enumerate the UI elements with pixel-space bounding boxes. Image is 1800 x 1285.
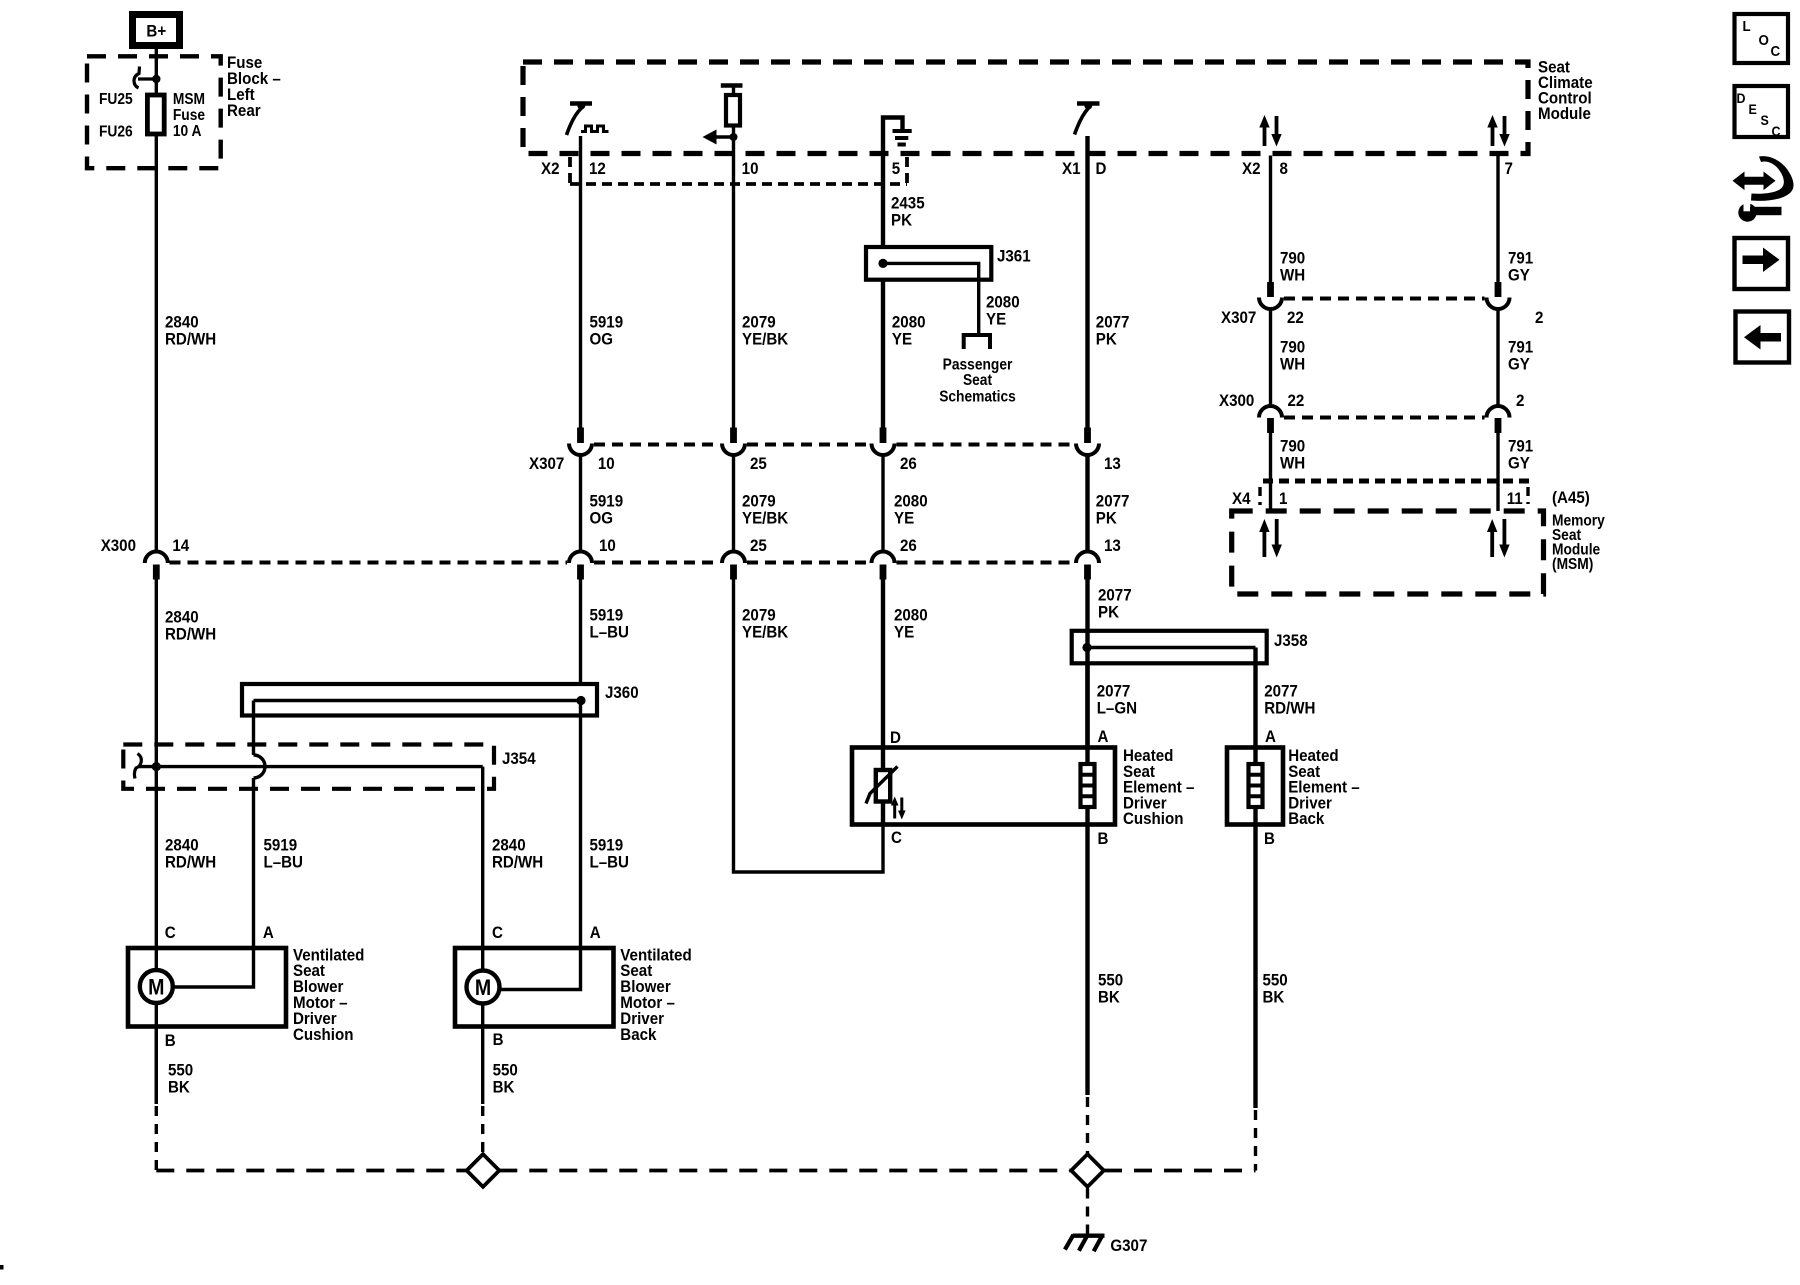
- svg-text:26: 26: [900, 454, 917, 473]
- arrow: [1487, 519, 1497, 532]
- svg-text:J358: J358: [1274, 631, 1308, 650]
- svg-text:Passenger: Passenger: [943, 357, 1013, 374]
- svg-text:B: B: [493, 1030, 504, 1049]
- svg-text:J354: J354: [502, 749, 536, 768]
- X2 connector dashed band: [570, 157, 907, 184]
- box: [866, 247, 991, 280]
- box: [1736, 312, 1790, 363]
- svg-text:5: 5: [892, 159, 900, 178]
- wire: [569, 444, 592, 456]
- wire: [872, 444, 895, 456]
- wire: [481, 1027, 484, 1105]
- bidirectional arrows at pin 8: [1263, 126, 1267, 147]
- svg-text:RD/WH: RD/WH: [492, 853, 543, 872]
- svg-text:7: 7: [1504, 159, 1512, 178]
- svg-text:FU26: FU26: [99, 124, 133, 141]
- box: [730, 565, 737, 580]
- wire: [1249, 775, 1263, 797]
- svg-text:B: B: [165, 1031, 176, 1050]
- wire: [1275, 116, 1279, 136]
- box: [1735, 14, 1789, 63]
- svg-text:25: 25: [750, 536, 767, 555]
- svg-text:A: A: [590, 923, 601, 942]
- svg-text:RD/WH: RD/WH: [165, 853, 216, 872]
- splice J358: [1072, 631, 1267, 664]
- motor M circle cushion: [140, 970, 173, 1003]
- wires below motors: [155, 1027, 158, 1105]
- wire: [732, 86, 735, 96]
- box: [577, 565, 584, 580]
- dashed drop to ground: [1086, 1189, 1089, 1235]
- svg-text:Seat: Seat: [963, 373, 992, 390]
- X300 pin 25 terminal: [722, 552, 745, 564]
- thermistor arrows: [893, 804, 896, 819]
- sidebar DESC icon: [1735, 86, 1789, 139]
- wire 5919 L-BU branch from J360 with crossover hop at J354: [252, 701, 255, 756]
- svg-text:J361: J361: [997, 247, 1031, 266]
- wire: [881, 456, 884, 552]
- svg-text:RD/WH: RD/WH: [165, 625, 216, 644]
- svg-text:L–GN: L–GN: [1097, 699, 1137, 718]
- svg-text:B: B: [1097, 829, 1108, 848]
- svg-text:PK: PK: [1098, 603, 1119, 622]
- svg-text:C: C: [891, 828, 902, 847]
- connector X307 right: pins 22 / 2: [1221, 282, 1543, 327]
- svg-text:Fuse: Fuse: [173, 107, 205, 124]
- sidebar forward arrow icon: [1735, 238, 1789, 289]
- svg-text:GY: GY: [1508, 454, 1530, 473]
- svg-text:J360: J360: [605, 683, 639, 702]
- svg-text:X2: X2: [541, 159, 560, 178]
- sidebar back arrow icon: [1736, 312, 1790, 363]
- svg-text:B+: B+: [146, 22, 166, 41]
- svg-text:X300: X300: [101, 536, 136, 555]
- page corner mark: [0, 1265, 4, 1270]
- arrow: [1272, 545, 1282, 558]
- switch inside SCCM (pin D): [1077, 101, 1100, 106]
- svg-text:YE: YE: [894, 623, 914, 642]
- wire: [732, 456, 735, 552]
- wire: [1075, 108, 1089, 135]
- wire: [481, 1106, 484, 1155]
- wire: [1253, 807, 1257, 825]
- svg-text:X300: X300: [1219, 391, 1254, 410]
- wire: [252, 778, 255, 948]
- ground symbol inside SCCM (pin 5): [883, 118, 903, 156]
- svg-text:10: 10: [598, 454, 615, 473]
- svg-text:12: 12: [589, 159, 606, 178]
- svg-text:B: B: [1264, 829, 1275, 848]
- box: [1267, 418, 1274, 433]
- svg-text:8: 8: [1280, 159, 1288, 178]
- svg-text:WH: WH: [1280, 266, 1305, 285]
- wire: [1253, 748, 1257, 765]
- svg-text:L–BU: L–BU: [263, 853, 302, 872]
- X300 row dashed connector line: [170, 561, 1075, 565]
- splice J354 dashed box: [123, 745, 494, 789]
- svg-text:Rear: Rear: [227, 101, 261, 120]
- wire: [1284, 297, 1485, 301]
- box: [880, 565, 887, 580]
- box: [1744, 201, 1751, 212]
- svg-text:10 A: 10 A: [173, 123, 202, 140]
- wire: [893, 131, 912, 145]
- wire stub pin 12: [579, 136, 582, 428]
- wire: [1076, 444, 1099, 456]
- wire: [1085, 748, 1089, 765]
- wire 2080 YE main from SCCM pin 5: [881, 155, 885, 428]
- arrow: [1271, 134, 1281, 147]
- svg-text:L–BU: L–BU: [589, 853, 628, 872]
- wire: [866, 767, 898, 804]
- junction: [730, 133, 738, 141]
- wire: [710, 135, 734, 138]
- wire: [1086, 1097, 1089, 1155]
- connector row X307 center: pins 10 25 26 13: [529, 428, 1121, 474]
- junction: [1738, 203, 1756, 221]
- svg-text:D: D: [890, 728, 901, 747]
- svg-text:25: 25: [750, 454, 767, 473]
- bidirectional arrows at MSM pin 11: [1490, 530, 1494, 557]
- wire: [155, 948, 158, 1027]
- thermistor symbol: [876, 770, 890, 802]
- wire pin D: [1085, 136, 1089, 428]
- connector X4 row: pins 1 / 11: [1263, 479, 1530, 484]
- wire: [1269, 433, 1272, 511]
- heated seat element driver back box: [1227, 748, 1283, 825]
- box: [1267, 282, 1274, 297]
- wire 790 WH from SCCM pin 8: [1269, 156, 1272, 283]
- wire: [1503, 519, 1507, 546]
- wire: [1085, 807, 1089, 825]
- wire: [1503, 116, 1507, 136]
- resistor with arrow inside SCCM (pin 10): [721, 83, 743, 88]
- svg-text:L–BU: L–BU: [589, 623, 628, 642]
- wire: [1259, 298, 1282, 310]
- wire: [254, 699, 582, 702]
- wire: [481, 948, 484, 1027]
- wire: [254, 755, 266, 778]
- svg-text:C: C: [165, 923, 176, 942]
- svg-text:BK: BK: [1262, 988, 1284, 1007]
- switch with resistive element inside SCCM (pin 12): [570, 101, 592, 106]
- wire 2079 YE/BK down with corner to heated element pin C: [734, 579, 884, 872]
- Memory Seat Module dashed box: [1232, 511, 1544, 594]
- wire: [881, 802, 885, 825]
- svg-text:Module: Module: [1538, 104, 1591, 123]
- svg-text:GY: GY: [1508, 355, 1530, 374]
- wire: [883, 263, 979, 281]
- arrow: [703, 130, 717, 145]
- X307 pin 10 terminal: [577, 428, 584, 444]
- arrow: [1499, 134, 1509, 147]
- svg-text:13: 13: [1104, 536, 1121, 555]
- svg-text:YE: YE: [986, 310, 1006, 329]
- svg-text:G307: G307: [1110, 1236, 1147, 1255]
- wire: [581, 126, 609, 132]
- svg-text:22: 22: [1287, 308, 1304, 327]
- box: [153, 565, 160, 580]
- arrow: [1259, 519, 1269, 532]
- wire: [732, 126, 735, 138]
- wire: [1254, 1110, 1257, 1171]
- svg-text:X307: X307: [529, 454, 564, 473]
- connector X300 right: pins 22 / 2: [1219, 391, 1524, 433]
- wire: [1496, 309, 1499, 406]
- svg-text:22: 22: [1288, 391, 1305, 410]
- wire: [173, 948, 254, 987]
- svg-text:BK: BK: [168, 1078, 190, 1097]
- sidebar LOC icon: [1735, 14, 1789, 63]
- connector row X300 center: pins 14 10 25 26 13: [145, 536, 1121, 579]
- svg-text:1: 1: [1279, 489, 1287, 508]
- splice diamond right: [1071, 1154, 1104, 1187]
- heating element symbol cushion: [1081, 764, 1095, 807]
- wire: [1275, 519, 1279, 546]
- svg-text:M: M: [148, 975, 164, 999]
- junction: [577, 102, 585, 110]
- wire 5919 L-BU through J360 to motor back pin A: [579, 701, 582, 949]
- svg-text:10: 10: [742, 159, 759, 178]
- svg-text:A: A: [1097, 727, 1108, 746]
- svg-text:X1: X1: [1062, 159, 1081, 178]
- B+ power symbol: [133, 15, 180, 46]
- wire 5919 L-BU down to J360: [579, 579, 582, 701]
- box: [1735, 86, 1789, 137]
- svg-text:D: D: [1737, 90, 1746, 106]
- svg-text:X4: X4: [1232, 489, 1251, 508]
- wire: [1487, 298, 1510, 310]
- wire 2080 YE down to heated element pin D: [881, 579, 885, 770]
- wire: [138, 77, 156, 80]
- svg-text:A: A: [263, 923, 274, 942]
- junction: [576, 696, 585, 705]
- junction: [878, 259, 887, 268]
- svg-text:X307: X307: [1221, 308, 1256, 327]
- svg-text:OG: OG: [589, 509, 613, 528]
- svg-text:YE/BK: YE/BK: [742, 330, 789, 349]
- ventilated seat blower motor driver cushion box: [128, 948, 286, 1027]
- wire: [1065, 1235, 1102, 1251]
- svg-text:L: L: [1743, 18, 1751, 35]
- wire: [499, 1169, 1071, 1173]
- J354 tap hook: [134, 754, 141, 779]
- wire: [567, 108, 582, 135]
- svg-text:Cushion: Cushion: [1123, 809, 1183, 828]
- wire: [1085, 456, 1089, 552]
- ventilated seat blower motor driver back box: [455, 948, 614, 1027]
- svg-text:11: 11: [1507, 489, 1523, 508]
- wire: [1104, 1169, 1256, 1173]
- off-page reference to passenger seat schematics: [964, 335, 990, 349]
- X300 pin 14 terminal: [145, 552, 168, 564]
- svg-text:MSM: MSM: [173, 91, 205, 108]
- wire 550 BK below heated cushion: [1085, 825, 1089, 1096]
- svg-text:2: 2: [1516, 391, 1524, 410]
- wire 2840 RD/WH down left column: [155, 579, 158, 1104]
- splice diamond left: [467, 1154, 500, 1187]
- splice J361: [977, 263, 980, 333]
- arrow: [1733, 172, 1776, 191]
- X300 pin 26 terminal: [872, 552, 895, 564]
- wire: [1487, 406, 1510, 418]
- arrow: [1499, 545, 1509, 558]
- svg-text:WH: WH: [1280, 355, 1305, 374]
- X307 row dashed connector line: [594, 443, 1074, 447]
- svg-text:PK: PK: [891, 211, 912, 230]
- bidirectional arrows at MSM pin 1: [1263, 530, 1267, 557]
- box: [1495, 418, 1502, 433]
- Seat Climate Control Module dashed box: [523, 62, 1528, 154]
- wire 2077 RD/WH from J358 to heated back pin A: [1253, 648, 1257, 765]
- svg-text:WH: WH: [1280, 454, 1305, 473]
- heating element symbol back: [1249, 764, 1263, 807]
- svg-text:PK: PK: [1096, 330, 1117, 349]
- svg-text:S: S: [1761, 112, 1769, 128]
- svg-text:YE/BK: YE/BK: [742, 509, 789, 528]
- svg-text:Cushion: Cushion: [293, 1025, 353, 1044]
- svg-text:YE/BK: YE/BK: [742, 623, 789, 642]
- svg-text:26: 26: [900, 536, 917, 555]
- svg-text:C: C: [1770, 43, 1780, 60]
- junction: [1084, 102, 1092, 110]
- svg-text:14: 14: [172, 536, 189, 555]
- arrow: [1744, 325, 1781, 350]
- fuse block dashed box: [87, 56, 221, 168]
- X300 pin 10 terminal: [569, 552, 592, 564]
- wire: [1087, 646, 1256, 649]
- svg-text:RD/WH: RD/WH: [1264, 699, 1315, 718]
- wire: [1496, 433, 1499, 511]
- svg-text:Schematics: Schematics: [939, 389, 1016, 406]
- box: [1495, 282, 1502, 297]
- svg-text:YE: YE: [892, 330, 912, 349]
- wire pin 10: [732, 137, 735, 428]
- X307 pin 25 terminal: [730, 428, 737, 444]
- box: [1735, 238, 1789, 289]
- svg-text:RD/WH: RD/WH: [165, 330, 216, 349]
- svg-text:PK: PK: [1096, 509, 1117, 528]
- wire 2077 PK continues through J358 (drawn above): [1085, 631, 1089, 764]
- arrow: [898, 811, 906, 820]
- wire 2840 RD/WH from B+ through fuse to X300: [155, 49, 158, 552]
- ground G307: [1073, 1233, 1105, 1237]
- ground bus dashed: [156, 1169, 466, 1173]
- arrow: [1487, 115, 1497, 128]
- svg-text:Back: Back: [1288, 809, 1324, 828]
- bidirectional arrows at pin 7: [1491, 126, 1495, 147]
- junction: [152, 762, 161, 771]
- svg-text:10: 10: [599, 536, 616, 555]
- wire: [500, 948, 581, 990]
- box: [726, 95, 740, 126]
- wire: [722, 444, 745, 456]
- arrow: [891, 797, 899, 806]
- svg-text:BK: BK: [493, 1078, 515, 1097]
- svg-text:OG: OG: [589, 330, 613, 349]
- X307 pin 26 terminal: [880, 428, 887, 444]
- fuse FU25/FU26 MSM Fuse 10A: [147, 95, 164, 134]
- X300 pin 13 terminal: [1076, 552, 1099, 564]
- wire: [900, 798, 903, 813]
- wire: [481, 767, 484, 948]
- svg-text:C: C: [1772, 123, 1781, 139]
- svg-text:(A45): (A45): [1552, 488, 1590, 507]
- wire: [1284, 416, 1485, 420]
- X307 pin 13 terminal: [1084, 428, 1091, 444]
- svg-text:C: C: [492, 923, 503, 942]
- junction in fuse block: [152, 75, 160, 83]
- wires inside cushion box: [881, 748, 885, 771]
- svg-text:Back: Back: [620, 1025, 656, 1044]
- wire 2077 PK down through J358: [1085, 579, 1089, 764]
- svg-text:13: 13: [1104, 454, 1121, 473]
- svg-text:X2: X2: [1242, 159, 1261, 178]
- heated seat element driver cushion box: [852, 748, 1115, 825]
- box: [1084, 565, 1091, 580]
- motor M circle back: [467, 971, 500, 1004]
- svg-text:YE: YE: [894, 509, 914, 528]
- svg-text:FU25: FU25: [99, 91, 133, 108]
- svg-text:O: O: [1759, 32, 1769, 49]
- wire: [1081, 775, 1095, 797]
- J354 splice line to motor back pin C: [139, 765, 483, 768]
- svg-text:GY: GY: [1508, 266, 1530, 285]
- wire segments between rows: [579, 456, 582, 552]
- arrow: [1743, 248, 1780, 273]
- svg-text:E: E: [1748, 101, 1756, 117]
- wire: [1526, 487, 1529, 504]
- svg-text:A: A: [1265, 727, 1276, 746]
- svg-text:D: D: [1096, 159, 1107, 178]
- wire 791 GY from SCCM pin 7: [1496, 156, 1499, 283]
- svg-text:(MSM): (MSM): [1552, 556, 1593, 573]
- dashed drops from motors: [155, 1106, 158, 1171]
- wire: [1259, 406, 1282, 418]
- sidebar repair icon (double arrow with wrench): [1733, 156, 1794, 222]
- svg-text:M: M: [475, 976, 491, 1000]
- fuse tap hook: [134, 67, 140, 89]
- wire: [1258, 487, 1261, 505]
- svg-text:BK: BK: [1098, 988, 1120, 1007]
- splice J360: [242, 684, 597, 716]
- wire: [1269, 309, 1272, 406]
- svg-text:2: 2: [1535, 308, 1543, 327]
- wire 550 BK below heated back: [1253, 825, 1257, 1109]
- box: [1750, 207, 1782, 215]
- junction: [1082, 643, 1091, 652]
- arrow: [1259, 115, 1269, 128]
